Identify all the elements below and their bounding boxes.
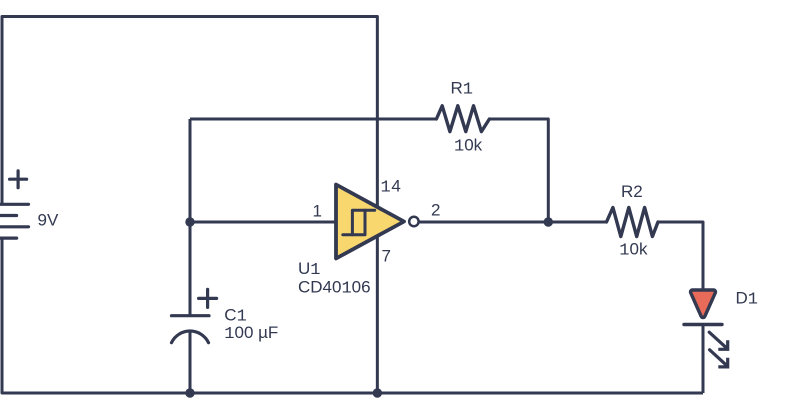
svg-text:14: 14 <box>381 177 402 198</box>
resistor R1 <box>436 106 489 132</box>
node output junction <box>544 217 553 226</box>
node input junction <box>185 217 194 226</box>
LED cathode bar <box>684 323 722 326</box>
svg-text:D1: D1 <box>736 289 758 310</box>
wire LED to bottom rail <box>702 325 705 394</box>
capacitor C1 <box>172 316 210 343</box>
svg-text:R1: R1 <box>451 79 473 100</box>
wire top rail <box>2 17 377 394</box>
hysteresis symbol <box>343 210 375 235</box>
output bubble <box>409 217 418 226</box>
svg-text:R2: R2 <box>621 182 643 201</box>
LED D1 body <box>691 290 716 318</box>
wire output to R2 <box>419 221 607 224</box>
wire input node vertical <box>189 119 192 316</box>
svg-text:CD40106: CD40106 <box>298 278 371 299</box>
svg-text:7: 7 <box>382 247 391 266</box>
node pin7 ground junction <box>373 388 382 397</box>
svg-text:10k: 10k <box>454 136 483 157</box>
svg-text:2: 2 <box>431 201 440 220</box>
svg-text:9V: 9V <box>38 211 59 230</box>
svg-text:1: 1 <box>313 202 322 221</box>
svg-text:10k: 10k <box>619 240 648 261</box>
wire feedback line R1 <box>190 118 436 121</box>
wire R2 to LED <box>658 222 703 291</box>
wire capacitor to bottom rail <box>189 331 192 393</box>
LED arrow 2 <box>710 350 728 367</box>
op-amp U1 schmitt trigger inverter body <box>336 185 404 259</box>
wire battery negative to bottom rail <box>2 238 703 393</box>
wire input to pin 1 <box>190 221 336 224</box>
battery B1 plates <box>0 204 29 238</box>
resistor R2 <box>607 208 659 237</box>
LED arrow 1 <box>709 332 728 349</box>
node capacitor ground junction <box>185 388 194 397</box>
capacitor plus sign <box>199 289 217 307</box>
svg-text:100 µF: 100 µF <box>224 323 278 344</box>
battery plus sign <box>10 171 27 188</box>
